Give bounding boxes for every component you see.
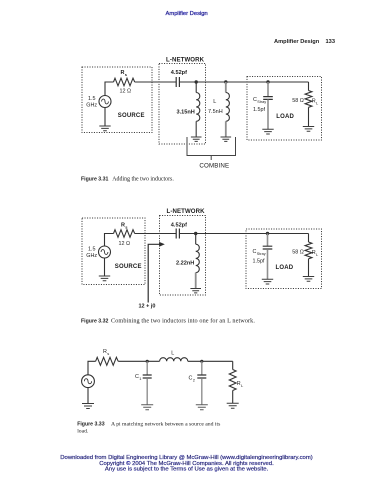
node at inductor 1 (fig 3.31) <box>195 80 198 83</box>
caption figure 3.32 <box>81 317 255 324</box>
label 12 + j0 (fig 3.32) <box>139 304 156 310</box>
node at inductor (fig 3.32) <box>194 232 197 235</box>
capacitor 4.52pf (fig 3.31) <box>176 77 179 87</box>
label Rs (fig 3.33) <box>103 349 109 356</box>
svg-text:12 + j0: 12 + j0 <box>139 304 156 310</box>
resistor Rs (fig 3.32) <box>114 230 135 238</box>
annotation arrow 12+j0 (fig 3.32) <box>148 242 165 303</box>
ground of inductor 2 (fig 3.31) <box>221 137 232 141</box>
ground of inductor (fig 3.32) <box>190 289 201 293</box>
source dashed box (fig 3.32) <box>82 218 145 285</box>
svg-text:Combining the two inductors in: Combining the two inductors into one for… <box>111 317 255 324</box>
load dashed box (fig 3.32) <box>246 229 322 289</box>
wire C to load (fig 3.31) <box>179 81 308 83</box>
L-NETWORK label (fig 3.32) <box>167 208 206 215</box>
AC source V1 (fig 3.31) <box>99 96 111 108</box>
label RL (fig 3.31) <box>312 99 319 106</box>
label L 7.5nH (fig 3.31) <box>208 99 223 115</box>
svg-text:Figure 3.31: Figure 3.31 <box>81 176 109 182</box>
svg-text:4.52pf: 4.52pf <box>171 70 187 76</box>
footer line 3 (blue) <box>105 467 269 473</box>
svg-text:2.22nH: 2.22nH <box>176 261 194 267</box>
svg-text:L: L <box>241 383 244 388</box>
svg-text:Stray: Stray <box>257 100 266 104</box>
svg-text:4.52pf: 4.52pf <box>171 222 187 228</box>
resistor RL (fig 3.32) <box>305 234 312 277</box>
caption figure 3.33 <box>77 421 221 434</box>
svg-text:LOAD: LOAD <box>276 265 294 271</box>
svg-text:GHz: GHz <box>86 103 97 109</box>
label L (fig 3.33) <box>171 351 174 357</box>
label 2.22nH (fig 3.32) <box>176 261 194 267</box>
inductor L 7.5nH (fig 3.31) <box>226 82 230 137</box>
label Rs (fig 3.32) <box>121 223 128 230</box>
ground of source (fig 3.31) <box>99 108 110 131</box>
svg-text:L: L <box>171 351 174 357</box>
capacitor C1 (fig 3.33) <box>143 361 152 404</box>
footer line 2 (blue) <box>99 460 274 467</box>
svg-text:12 Ω: 12 Ω <box>119 241 131 247</box>
svg-text:L-NETWORK: L-NETWORK <box>166 57 205 64</box>
ground of source (fig 3.33) <box>82 388 94 409</box>
svg-text:s: s <box>125 72 128 77</box>
node at Cstray (fig 3.32) <box>266 232 269 235</box>
L-network dashed box (fig 3.31) <box>159 64 206 145</box>
node at inductor 2 (fig 3.31) <box>224 80 227 83</box>
svg-text:Figure 3.32: Figure 3.32 <box>81 318 109 324</box>
label Rs (fig 3.31) <box>121 70 128 77</box>
caption figure 3.31 <box>81 176 174 182</box>
ground of inductor 1 (fig 3.31) <box>191 137 202 141</box>
wire source top (fig 3.33) <box>88 361 96 375</box>
svg-text:L: L <box>316 252 319 257</box>
capacitor 4.52pf (fig 3.32) <box>176 229 179 239</box>
svg-text:LOAD: LOAD <box>276 114 294 120</box>
AC source V1 (fig 3.32) <box>99 246 111 258</box>
svg-text:s: s <box>125 224 128 229</box>
ground of Cstray (fig 3.32) <box>262 279 273 284</box>
resistor RL (fig 3.31) <box>305 82 312 126</box>
label Cstray 1.5pf (fig 3.32) <box>253 249 266 265</box>
L-NETWORK label (fig 3.31) <box>166 57 205 64</box>
capacitor C2 (fig 3.33) <box>197 361 206 404</box>
ground of RL (fig 3.33) <box>227 403 239 408</box>
wire Rs to C1 (fig 3.33) <box>118 360 159 362</box>
ground of Cstray (fig 3.31) <box>262 129 273 134</box>
inductor 3.15nH (fig 3.31) <box>196 82 200 137</box>
svg-text:Amplifier Design: Amplifier Design <box>274 39 320 45</box>
LOAD label (fig 3.31) <box>276 114 294 120</box>
svg-text:Figure 3.33: Figure 3.33 <box>77 421 105 427</box>
wire Rs to C (fig 3.32) <box>135 233 177 235</box>
svg-text:COMBINE: COMBINE <box>199 162 229 169</box>
svg-text:Stray: Stray <box>257 252 266 256</box>
SOURCE label (fig 3.32) <box>115 264 142 270</box>
capacitor Cstray 1.5pf (fig 3.31) <box>263 82 273 129</box>
ground of source (fig 3.32) <box>99 258 110 281</box>
svg-text:1: 1 <box>139 376 142 381</box>
label 4.52pf (fig 3.31) <box>171 70 187 76</box>
inductor 2.22nH (fig 3.32) <box>196 234 200 289</box>
label C1 (fig 3.33) <box>135 374 142 381</box>
svg-text:A pi matching network between: A pi matching network between a source a… <box>111 421 221 427</box>
svg-text:s: s <box>107 351 109 356</box>
combine bracket (fig 3.31) <box>187 137 236 160</box>
svg-text:Any use is subject to the Term: Any use is subject to the Terms of Use a… <box>105 467 269 473</box>
header running title (blue) <box>166 11 208 17</box>
LOAD label (fig 3.32) <box>276 265 294 271</box>
header page title + folio <box>274 39 335 45</box>
svg-text:2: 2 <box>193 378 196 383</box>
svg-text:133: 133 <box>326 39 336 45</box>
AC source (fig 3.33) <box>82 375 95 388</box>
wire C to load (fig 3.32) <box>179 233 308 235</box>
node at Cstray (fig 3.31) <box>266 80 269 83</box>
svg-text:Adding the two inductors.: Adding the two inductors. <box>112 176 174 182</box>
svg-text:58 Ω: 58 Ω <box>292 98 304 104</box>
footer line 1 (blue) <box>60 455 312 461</box>
wire source top (fig 3.31) <box>105 82 114 96</box>
svg-text:GHz: GHz <box>86 253 97 259</box>
svg-text:1.5pf: 1.5pf <box>253 259 265 265</box>
svg-text:1.5pf: 1.5pf <box>253 107 265 113</box>
label 4.52pf (fig 3.32) <box>171 222 187 228</box>
capacitor Cstray 1.5pf (fig 3.32) <box>263 234 273 280</box>
svg-text:SOURCE: SOURCE <box>118 113 145 119</box>
svg-text:Amplifier Design: Amplifier Design <box>166 11 208 17</box>
resistor Rs (fig 3.31) <box>114 78 135 86</box>
svg-text:L: L <box>316 101 319 106</box>
label 1.5 GHz (fig 3.32) <box>86 247 97 260</box>
wire Rs to C (fig 3.31) <box>135 81 177 83</box>
load dashed box (fig 3.31) <box>247 77 322 141</box>
label C2 (fig 3.33) <box>189 376 196 383</box>
svg-text:12 Ω: 12 Ω <box>120 89 132 95</box>
label RL (fig 3.32) <box>312 250 319 257</box>
label 58 ohm (fig 3.31) <box>292 98 304 104</box>
svg-text:1.5: 1.5 <box>88 247 96 253</box>
resistor RL (fig 3.33) <box>229 361 236 403</box>
label 12 ohm (fig 3.31) <box>120 89 132 95</box>
label 1.5 GHz (fig 3.31) <box>86 96 97 109</box>
L-network dashed box (fig 3.32) <box>160 216 206 296</box>
label RL (fig 3.33) <box>237 381 244 388</box>
resistor Rs (fig 3.33) <box>96 357 119 365</box>
label 12 ohm (fig 3.32) <box>119 241 131 247</box>
wire L to C2 (fig 3.33) <box>188 360 233 362</box>
SOURCE label (fig 3.31) <box>118 113 145 119</box>
svg-text:1.5: 1.5 <box>88 96 96 102</box>
source dashed box (fig 3.31) <box>82 67 152 133</box>
svg-text:58 Ω: 58 Ω <box>292 250 304 256</box>
svg-text:3.15nH: 3.15nH <box>177 110 195 116</box>
svg-text:SOURCE: SOURCE <box>115 264 142 270</box>
ground of C2 (fig 3.33) <box>196 405 208 410</box>
svg-text:L-NETWORK: L-NETWORK <box>167 208 206 215</box>
node at C2 (fig 3.33) <box>200 360 203 363</box>
ground of C1 (fig 3.33) <box>141 405 153 410</box>
wire source top (fig 3.32) <box>105 234 114 247</box>
svg-text:L: L <box>213 99 216 105</box>
COMBINE label (fig 3.31) <box>199 162 229 169</box>
label 3.15nH (fig 3.31) <box>177 110 195 116</box>
ground of RL (fig 3.32) <box>303 277 314 282</box>
node at C1 (fig 3.33) <box>146 360 149 363</box>
label Cstray 1.5pf (fig 3.31) <box>253 97 266 113</box>
inductor L (fig 3.33) <box>160 358 188 362</box>
label 58 ohm (fig 3.32) <box>292 250 304 256</box>
svg-text:load.: load. <box>77 428 89 434</box>
svg-text:7.5nH: 7.5nH <box>208 109 223 115</box>
ground of RL (fig 3.31) <box>303 127 314 132</box>
